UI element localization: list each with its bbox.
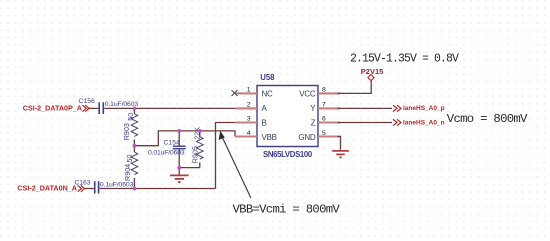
pin 5 GND: [318, 135, 341, 137]
junction: [133, 144, 137, 148]
off-page connector laneHS_A0_p: [393, 105, 401, 111]
svg-text:laneHS_A0_p: laneHS_A0_p: [403, 105, 445, 112]
svg-text:C156: C156: [79, 98, 95, 105]
svg-text:laneHS_A0_n: laneHS_A0_n: [403, 120, 445, 127]
svg-text:50: 50: [125, 155, 134, 163]
wire: [85, 188, 94, 190]
pin 1 NC: [235, 92, 257, 94]
svg-text:NC: NC: [262, 89, 274, 98]
wire GND pin to ground: [338, 137, 341, 150]
resistor R904: [123, 146, 138, 189]
no-connect X: [232, 90, 238, 96]
svg-text:C154: C154: [164, 139, 180, 146]
svg-text:2: 2: [247, 101, 251, 108]
op IC U58 SN65LVDS100 body: [257, 86, 318, 147]
svg-text:6: 6: [322, 116, 326, 123]
svg-text:7: 7: [322, 101, 326, 108]
svg-text:1: 1: [247, 87, 251, 94]
wire Z output: [338, 122, 393, 124]
svg-text:P2V15: P2V15: [361, 67, 384, 76]
svg-text:VCC: VCC: [299, 89, 316, 98]
svg-text:0.1uF/0603: 0.1uF/0603: [100, 182, 134, 189]
capacitor C163: [74, 179, 133, 193]
power symbol P2V15: [361, 67, 384, 81]
pin 8 VCC: [318, 92, 340, 94]
wire: [100, 188, 216, 190]
svg-text:VBB=Vcmi = 800mV: VBB=Vcmi = 800mV: [233, 203, 341, 217]
svg-text:0.01uF/0603: 0.01uF/0603: [148, 150, 185, 157]
svg-text:R904: R904: [123, 164, 132, 181]
pin 7 Y: [318, 107, 340, 109]
svg-text:U58: U58: [260, 73, 275, 82]
junction: [198, 129, 202, 133]
wire: [216, 123, 236, 189]
ground under C154: [170, 168, 189, 183]
wire: [179, 167, 200, 169]
svg-text:B: B: [262, 119, 267, 128]
svg-text:R905: R905: [191, 146, 200, 163]
svg-text:Z: Z: [311, 119, 316, 128]
svg-text:Vcmo = 800mV: Vcmo = 800mV: [447, 112, 528, 126]
junction: [177, 129, 181, 133]
svg-text:C163: C163: [74, 179, 90, 186]
svg-text:5: 5: [322, 130, 326, 137]
capacitor C156: [79, 98, 139, 114]
svg-text:22K: 22K: [192, 127, 201, 140]
off-page connector CSI-2_DATA0N_A: [78, 185, 85, 191]
pin 3 B: [235, 121, 257, 123]
pin 6 Z: [318, 121, 340, 123]
svg-text:R903: R903: [122, 123, 131, 140]
pin 4 VBB: [235, 135, 257, 137]
wire: [104, 107, 235, 109]
svg-text:3: 3: [247, 116, 251, 123]
resistor R905: [191, 127, 204, 168]
pin 2 A: [235, 107, 257, 109]
wire: [134, 131, 235, 146]
svg-text:4: 4: [247, 130, 251, 137]
svg-text:50: 50: [126, 113, 135, 121]
off-page connector CSI-2_DATA0P_A: [83, 105, 90, 111]
junction: [133, 187, 137, 191]
resistor R903: [122, 108, 138, 145]
svg-text:GND: GND: [298, 133, 316, 142]
wire VCC to P2V15: [338, 81, 372, 94]
annotation arrow to VBB node: [219, 131, 251, 198]
svg-text:SN65LVDS100: SN65LVDS100: [263, 150, 313, 159]
junction: [133, 107, 137, 111]
wire: [89, 107, 98, 109]
svg-text:CSI-2_DATA0P_A: CSI-2_DATA0P_A: [23, 103, 82, 112]
ground under pin 5: [332, 151, 349, 158]
capacitor C154: [148, 131, 186, 168]
wire Y output: [338, 107, 393, 109]
junction: [177, 166, 181, 170]
svg-text:CSI-2_DATA0N_A: CSI-2_DATA0N_A: [17, 184, 77, 193]
svg-text:8: 8: [322, 87, 326, 94]
off-page connector laneHS_A0_n: [393, 119, 401, 125]
svg-text:2.15V-1.35V = 0.8V: 2.15V-1.35V = 0.8V: [350, 52, 459, 65]
svg-text:VBB: VBB: [262, 133, 277, 142]
